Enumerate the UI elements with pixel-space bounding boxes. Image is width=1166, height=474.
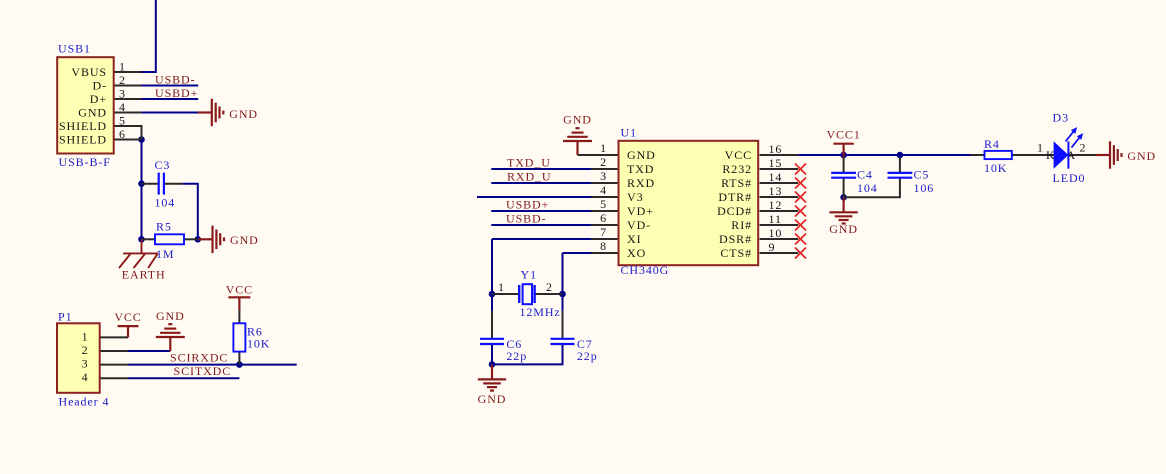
svg-text:VCC: VCC: [725, 148, 752, 162]
svg-text:7: 7: [600, 225, 607, 239]
svg-text:4: 4: [600, 183, 607, 197]
svg-text:GND: GND: [78, 106, 107, 120]
svg-text:12: 12: [769, 198, 783, 212]
svg-text:1: 1: [119, 60, 126, 74]
svg-text:TXD: TXD: [627, 162, 654, 176]
svg-text:11: 11: [769, 212, 782, 226]
svg-text:XO: XO: [627, 246, 646, 260]
svg-text:6: 6: [600, 211, 607, 225]
svg-text:2: 2: [600, 155, 607, 169]
svg-text:22p: 22p: [577, 349, 598, 363]
svg-text:GND: GND: [563, 113, 592, 127]
svg-text:D+: D+: [90, 92, 107, 106]
svg-text:14: 14: [769, 170, 783, 184]
svg-text:5: 5: [119, 114, 126, 128]
svg-text:1: 1: [1037, 141, 1044, 155]
svg-text:GND: GND: [1127, 149, 1156, 163]
svg-text:GND: GND: [156, 309, 185, 323]
svg-text:GND: GND: [627, 148, 656, 162]
svg-text:D3: D3: [1053, 111, 1069, 125]
svg-text:USBD-: USBD-: [155, 72, 196, 86]
svg-text:1: 1: [498, 280, 505, 294]
svg-text:R5: R5: [156, 220, 172, 234]
svg-text:RI#: RI#: [731, 218, 752, 232]
svg-text:USB1: USB1: [58, 42, 91, 56]
svg-text:DTR#: DTR#: [718, 190, 752, 204]
svg-text:9: 9: [769, 240, 776, 254]
svg-text:VD-: VD-: [627, 218, 651, 232]
svg-text:RTS#: RTS#: [721, 176, 752, 190]
svg-text:SCIRXDC: SCIRXDC: [170, 351, 228, 365]
svg-text:DCD#: DCD#: [717, 204, 752, 218]
svg-text:TXD_U: TXD_U: [507, 156, 551, 170]
svg-text:VD+: VD+: [627, 204, 654, 218]
svg-text:C5: C5: [914, 167, 930, 181]
svg-text:3: 3: [600, 169, 607, 183]
svg-text:10: 10: [769, 226, 783, 240]
svg-text:12MHz: 12MHz: [520, 305, 561, 319]
svg-text:VCC1: VCC1: [826, 128, 860, 142]
svg-text:1: 1: [82, 329, 89, 343]
svg-text:EARTH: EARTH: [122, 267, 166, 281]
svg-text:USBD+: USBD+: [155, 86, 198, 100]
svg-text:22p: 22p: [506, 349, 527, 363]
svg-text:10K: 10K: [247, 336, 270, 350]
svg-text:104: 104: [155, 196, 176, 210]
svg-text:SHIELD: SHIELD: [59, 133, 107, 147]
svg-text:R232: R232: [722, 162, 752, 176]
svg-text:4: 4: [119, 100, 126, 114]
svg-text:2: 2: [119, 73, 126, 87]
svg-text:SHIELD: SHIELD: [59, 119, 107, 133]
svg-text:GND: GND: [230, 233, 259, 247]
svg-text:XI: XI: [627, 232, 641, 246]
svg-text:1M: 1M: [156, 247, 174, 261]
svg-text:U1: U1: [621, 126, 637, 140]
svg-text:DSR#: DSR#: [719, 232, 752, 246]
svg-text:8: 8: [600, 239, 607, 253]
svg-text:2: 2: [1080, 141, 1087, 155]
svg-text:USBD+: USBD+: [506, 198, 549, 212]
svg-text:2: 2: [546, 280, 553, 294]
svg-text:104: 104: [857, 181, 878, 195]
svg-text:3: 3: [82, 357, 89, 371]
svg-text:GND: GND: [478, 392, 507, 406]
svg-text:C3: C3: [155, 158, 171, 172]
svg-text:P1: P1: [58, 309, 72, 323]
svg-text:RXD: RXD: [627, 176, 655, 190]
svg-text:R4: R4: [984, 137, 1000, 151]
svg-text:13: 13: [769, 184, 783, 198]
svg-text:C4: C4: [857, 167, 873, 181]
svg-text:D-: D-: [93, 79, 107, 93]
svg-text:GND: GND: [229, 107, 258, 121]
svg-text:3: 3: [119, 87, 126, 101]
svg-text:USBD-: USBD-: [506, 212, 547, 226]
svg-text:4: 4: [82, 370, 89, 384]
svg-text:SCITXDC: SCITXDC: [174, 364, 232, 378]
svg-text:6: 6: [119, 127, 126, 141]
svg-text:VCC: VCC: [226, 283, 253, 297]
svg-text:CTS#: CTS#: [720, 246, 752, 260]
svg-text:2: 2: [82, 343, 89, 357]
svg-text:10K: 10K: [984, 161, 1007, 175]
svg-text:USB-B-F: USB-B-F: [59, 155, 111, 169]
svg-text:V3: V3: [627, 190, 643, 204]
svg-text:Header 4: Header 4: [59, 395, 110, 409]
svg-text:5: 5: [600, 197, 607, 211]
svg-text:RXD_U: RXD_U: [507, 170, 552, 184]
svg-text:VBUS: VBUS: [71, 65, 107, 79]
svg-text:GND: GND: [829, 222, 858, 236]
svg-text:Y1: Y1: [521, 268, 537, 282]
svg-text:15: 15: [769, 156, 783, 170]
svg-text:16: 16: [769, 142, 783, 156]
svg-text:1: 1: [600, 141, 607, 155]
svg-text:106: 106: [914, 181, 935, 195]
svg-text:CH340G: CH340G: [621, 263, 670, 277]
svg-text:VCC: VCC: [114, 310, 141, 324]
svg-text:LED0: LED0: [1053, 171, 1086, 185]
